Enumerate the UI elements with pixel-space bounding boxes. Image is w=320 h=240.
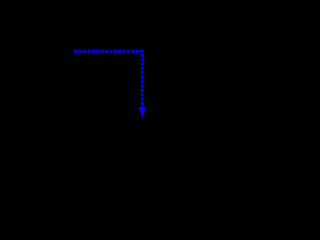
wire: dashed blue elbow from left to corner then down bbox=[74, 51, 142, 107]
arrowhead pointing down bbox=[138, 107, 146, 118]
